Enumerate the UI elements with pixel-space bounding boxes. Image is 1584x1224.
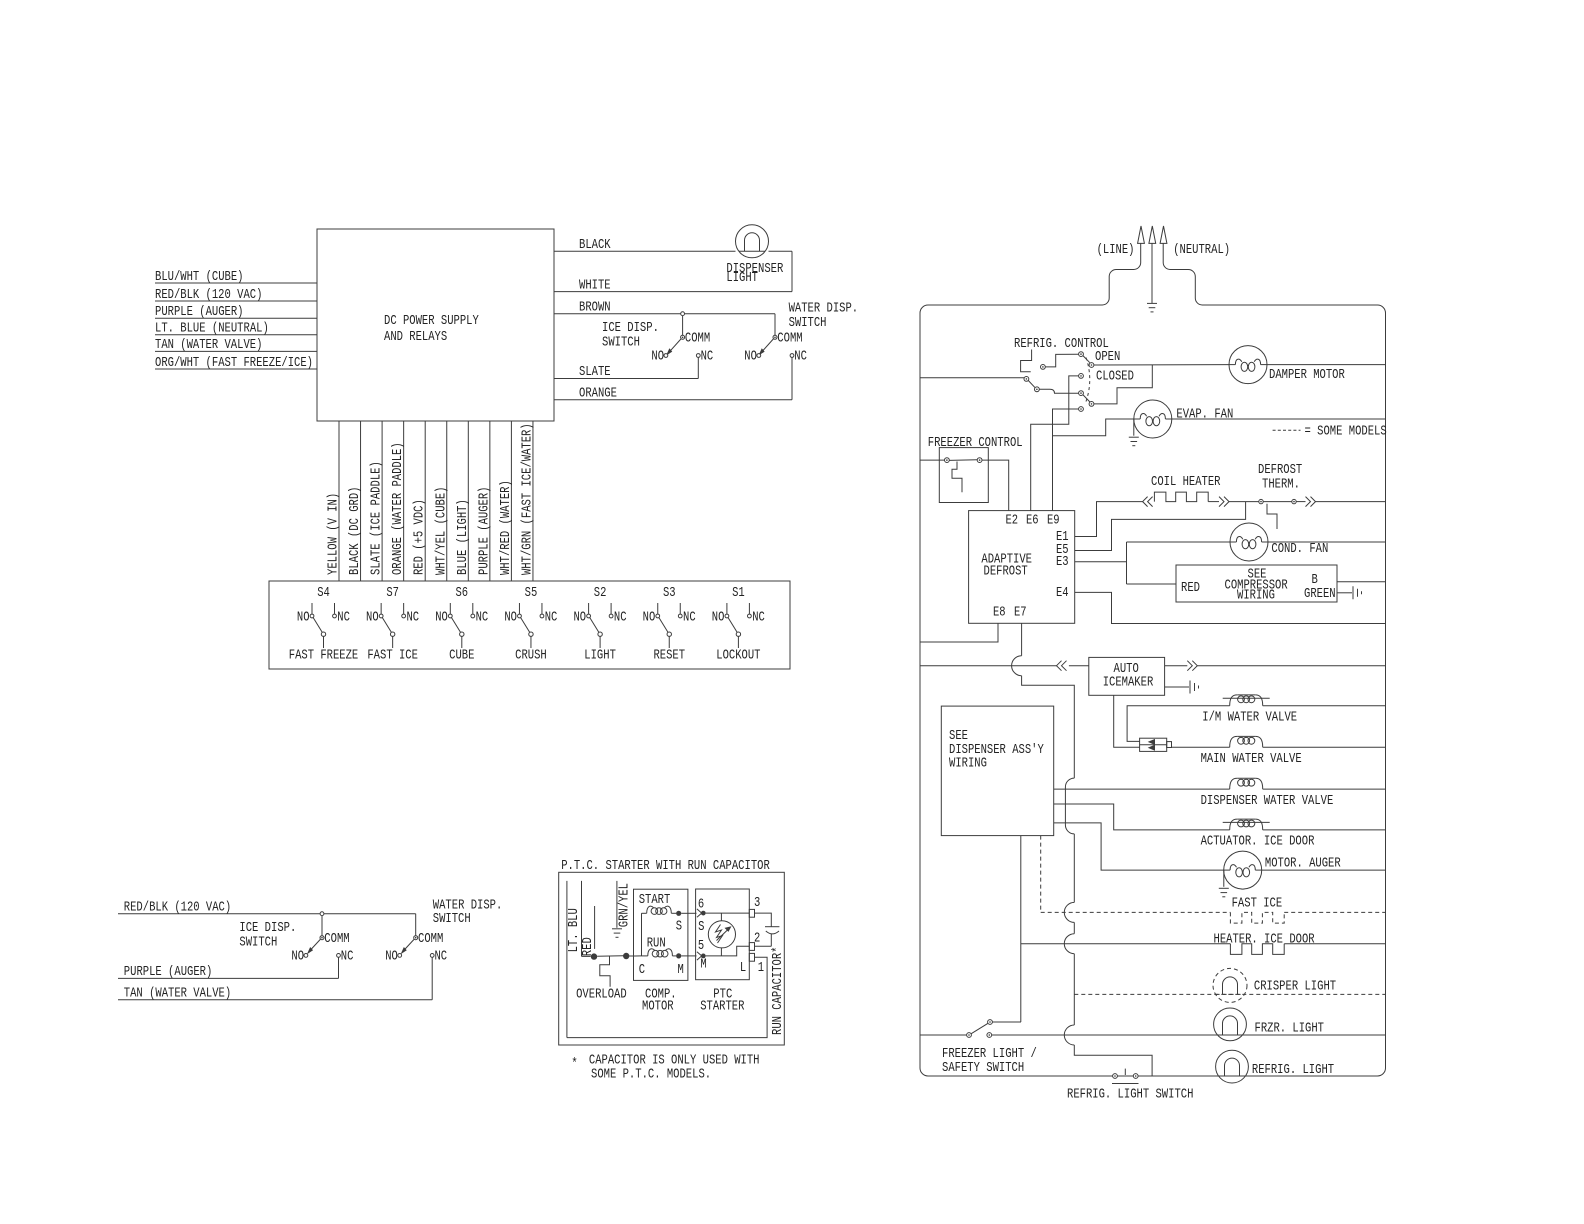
svg-text:3: 3 <box>754 895 760 911</box>
svg-text:1: 1 <box>758 960 764 976</box>
wire dispenser to actuator <box>1054 804 1230 830</box>
wire ORANGE <box>554 399 792 401</box>
svg-text:NC: NC <box>683 610 696 626</box>
svg-text:S7: S7 <box>386 585 399 601</box>
svg-text:FAST ICE: FAST ICE <box>1232 896 1283 912</box>
wire E to F <box>1039 389 1079 393</box>
node brown junction <box>681 312 685 316</box>
svg-text:COMM: COMM <box>685 331 710 347</box>
S row wire to pin 3 <box>706 912 750 914</box>
wire pin1 to bottom rail <box>567 957 767 1037</box>
svg-text:YELLOW (V IN): YELLOW (V IN) <box>326 493 342 575</box>
svg-text:AND RELAYS: AND RELAYS <box>384 329 447 345</box>
compressor wiring box <box>1176 565 1337 602</box>
svg-text:TAN (WATER VALVE): TAN (WATER VALVE) <box>124 986 231 1002</box>
svg-text:WHITE: WHITE <box>579 277 611 293</box>
wire auto icemaker line <box>920 665 1057 667</box>
wire ORANGE (WATER PADDLE) <box>403 421 405 581</box>
wire BLACK <box>554 250 736 252</box>
svg-text:CLOSED: CLOSED <box>1096 368 1134 384</box>
svg-text:COIL HEATER: COIL HEATER <box>1151 474 1221 490</box>
wire ORG/WHT (FAST FREEZE/ICE) <box>155 368 317 370</box>
svg-text:SWITCH: SWITCH <box>789 315 827 331</box>
coil heater connector left <box>1143 497 1148 507</box>
svg-text:SWITCH: SWITCH <box>239 935 277 951</box>
svg-text:WIRING: WIRING <box>1237 588 1275 604</box>
overload protector <box>582 955 591 957</box>
svg-text:START: START <box>639 892 671 908</box>
wire C contact to E6 <box>1031 376 1079 511</box>
cond fan motor M3 <box>1230 523 1268 561</box>
ground plug <box>1147 302 1157 304</box>
wire heater to defrost therm <box>1229 501 1259 503</box>
svg-text:LIGHT: LIGHT <box>584 648 616 664</box>
svg-text:HEATER. ICE DOOR: HEATER. ICE DOOR <box>1214 932 1316 948</box>
evap fan motor M2 <box>1134 400 1172 438</box>
wire to evap fan <box>1053 419 1134 436</box>
svg-text:LOCKOUT: LOCKOUT <box>716 648 760 664</box>
svg-text:M: M <box>678 962 684 978</box>
svg-text:E4: E4 <box>1056 585 1069 601</box>
winding common <box>641 913 643 956</box>
wire WHT/RED (WATER) <box>510 421 512 581</box>
svg-text:NC: NC <box>476 610 489 626</box>
wire RED/BLK (120 VAC) <box>155 300 317 302</box>
svg-text:MAIN WATER VALVE: MAIN WATER VALVE <box>1201 751 1302 767</box>
M row wire to pin 2 <box>706 946 750 956</box>
svg-text:ORG/WHT (FAST FREEZE/ICE): ORG/WHT (FAST FREEZE/ICE) <box>155 355 313 371</box>
wire BLU/WHT (CUBE) <box>155 282 317 284</box>
refrig control actuator bracket <box>1021 350 1032 372</box>
svg-text:REFRIG. LIGHT: REFRIG. LIGHT <box>1252 1062 1334 1078</box>
wire cond fan line <box>1127 541 1231 543</box>
svg-text:FRZR. LIGHT: FRZR. LIGHT <box>1255 1021 1325 1037</box>
PTC starter box <box>696 889 750 980</box>
svg-text:GRN/YEL: GRN/YEL <box>617 883 633 927</box>
svg-text:WHT/YEL (CUBE): WHT/YEL (CUBE) <box>433 487 449 576</box>
damper motor M1 <box>1229 346 1267 384</box>
svg-text:5: 5 <box>698 938 704 954</box>
actuator ice door L4 <box>1230 819 1238 830</box>
ice door heater R3 <box>1230 944 1284 955</box>
svg-text:NO: NO <box>651 349 664 365</box>
svg-text:E9: E9 <box>1047 512 1060 528</box>
coil heater R1 <box>1154 492 1208 502</box>
svg-text:TAN (WATER VALVE): TAN (WATER VALVE) <box>155 337 262 353</box>
run capacitor C1 <box>765 926 779 928</box>
svg-text:COMM: COMM <box>418 931 443 947</box>
see dispenser assy wiring box <box>941 706 1053 836</box>
svg-text:S: S <box>698 919 704 935</box>
svg-text:L: L <box>740 960 746 976</box>
svg-text:COND. FAN: COND. FAN <box>1271 541 1328 557</box>
svg-text:RED/BLK (120 VAC): RED/BLK (120 VAC) <box>155 287 262 303</box>
wire RED to compressor <box>1127 583 1177 585</box>
wire BLACK (DC GRD) <box>360 421 362 581</box>
svg-text:RED: RED <box>580 937 596 956</box>
svg-text:WHT/GRN (FAST ICE/WATER): WHT/GRN (FAST ICE/WATER) <box>519 423 535 575</box>
PTC thermistor <box>708 921 735 948</box>
ground evap fan <box>1133 419 1135 436</box>
svg-text:NC: NC <box>341 948 354 964</box>
motor S terminal <box>676 911 681 916</box>
svg-text:NC: NC <box>406 610 419 626</box>
wire PURPLE (AUGER) <box>155 317 317 319</box>
svg-text:GREEN: GREEN <box>1304 586 1336 602</box>
svg-text:NO: NO <box>643 610 656 626</box>
svg-text:*: * <box>571 1056 577 1072</box>
power plug line prong <box>928 243 1141 305</box>
svg-text:ORANGE (WATER PADDLE): ORANGE (WATER PADDLE) <box>390 442 406 575</box>
wire heater ice door feed <box>1020 836 1022 1022</box>
svg-text:NO: NO <box>504 610 517 626</box>
svg-text:DISPENSER WATER VALVE: DISPENSER WATER VALVE <box>1201 793 1334 809</box>
svg-text:P.T.C. STARTER WITH RUN CAPACI: P.T.C. STARTER WITH RUN CAPACITOR <box>561 858 770 874</box>
membrane switch panel box <box>269 581 790 669</box>
node red/blk junction <box>320 912 324 916</box>
wire WHITE <box>554 291 792 293</box>
wire damper motor line <box>1094 364 1229 366</box>
svg-text:RESET: RESET <box>653 648 685 664</box>
refrig light switch S14 <box>1113 1074 1118 1079</box>
wire icemaker to check valve <box>1114 695 1140 747</box>
svg-text:E2: E2 <box>1006 512 1019 528</box>
svg-text:REFRIG. LIGHT SWITCH: REFRIG. LIGHT SWITCH <box>1067 1087 1193 1103</box>
wire RED (+5 VDC) <box>424 421 426 581</box>
wire dispenser water valve <box>1054 788 1230 790</box>
svg-text:I/M WATER VALVE: I/M WATER VALVE <box>1202 710 1297 726</box>
wire E1 to coil heater <box>1075 502 1143 537</box>
svg-text:RED (+5 VDC): RED (+5 VDC) <box>412 499 428 575</box>
svg-text:LIGHT: LIGHT <box>726 270 758 286</box>
overload terminal stub <box>594 906 596 949</box>
svg-text:RED/BLK (120 VAC): RED/BLK (120 VAC) <box>124 900 231 916</box>
svg-text:WHT/RED (WATER): WHT/RED (WATER) <box>498 480 514 575</box>
wire PURPLE (AUGER) <box>489 421 491 581</box>
svg-text:DC POWER SUPPLY: DC POWER SUPPLY <box>384 313 479 329</box>
svg-text:NO: NO <box>366 610 379 626</box>
svg-text:NO: NO <box>744 349 757 365</box>
wire NC to slate <box>697 358 699 379</box>
svg-text:S1: S1 <box>732 585 745 601</box>
svg-text:E8: E8 <box>993 605 1006 621</box>
svg-text:S2: S2 <box>594 585 607 601</box>
svg-text:FAST ICE: FAST ICE <box>367 648 418 664</box>
compressor motor box <box>634 889 688 980</box>
wire NC to orange <box>791 358 793 400</box>
wire E7 feed <box>1021 623 1023 655</box>
svg-text:NO: NO <box>574 610 587 626</box>
svg-text:NC: NC <box>545 610 558 626</box>
main water valve L2 <box>1230 736 1238 747</box>
wire bus to refrig control <box>920 377 1024 379</box>
wire LT. BLUE (NEUTRAL) <box>155 334 317 336</box>
svg-text:SWITCH: SWITCH <box>433 911 471 927</box>
wire LT. BLU <box>566 881 568 1038</box>
svg-text:= SOME MODELS: = SOME MODELS <box>1305 423 1387 439</box>
svg-text:NC: NC <box>701 349 714 365</box>
svg-text:BLACK (DC GRD): BLACK (DC GRD) <box>347 487 363 576</box>
svg-text:WIRING: WIRING <box>949 755 987 771</box>
svg-text:BLACK: BLACK <box>579 237 611 253</box>
svg-text:EVAP. FAN: EVAP. FAN <box>1176 407 1233 423</box>
svg-text:RUN CAPACITOR*: RUN CAPACITOR* <box>770 947 786 1036</box>
svg-text:NO: NO <box>435 610 448 626</box>
svg-text:(NEUTRAL): (NEUTRAL) <box>1173 242 1230 258</box>
wire GREEN to ground <box>1337 592 1352 594</box>
svg-text:2: 2 <box>754 931 760 947</box>
svg-text:NO: NO <box>385 948 398 964</box>
ground auger <box>1223 870 1225 887</box>
svg-text:CUBE: CUBE <box>449 648 474 664</box>
coil heater connector right <box>1219 497 1224 507</box>
legend some models <box>1273 429 1301 431</box>
wire fast ice dashed <box>1040 836 1042 912</box>
svg-text:NC: NC <box>435 948 448 964</box>
svg-text:ICE DISP.: ICE DISP. <box>602 320 659 336</box>
svg-text:SOME P.T.C. MODELS.: SOME P.T.C. MODELS. <box>591 1067 711 1083</box>
wire E8 to bus <box>920 623 998 642</box>
svg-text:FAST FREEZE: FAST FREEZE <box>289 648 359 664</box>
dispenser light DS1 <box>736 225 769 258</box>
pin 2 <box>749 943 754 951</box>
svg-text:BROWN: BROWN <box>579 299 611 315</box>
pin 3 <box>749 909 754 917</box>
wire E3 <box>1075 561 1127 563</box>
wire E4 to bus <box>1075 592 1386 623</box>
svg-text:NC: NC <box>614 610 627 626</box>
refrig light DS4 <box>1216 1050 1249 1083</box>
svg-text:S4: S4 <box>317 585 330 601</box>
svg-text:RED: RED <box>1181 580 1200 596</box>
wire frzr light line <box>992 1034 1386 1036</box>
wire crisper light dashed <box>1074 993 1385 995</box>
svg-text:SAFETY SWITCH: SAFETY SWITCH <box>942 1060 1024 1076</box>
wire BROWN <box>554 313 775 315</box>
svg-text:SLATE (ICE PADDLE): SLATE (ICE PADDLE) <box>369 461 385 575</box>
wire freezer control to E2 <box>982 460 1009 511</box>
svg-text:SWITCH: SWITCH <box>602 335 640 351</box>
wire H contact to E9 <box>1053 409 1079 511</box>
wire GRN/YEL <box>616 881 618 928</box>
cabinet outline <box>920 305 1386 1076</box>
DC power supply and relays box U1 <box>317 229 554 421</box>
svg-text:BLU/WHT (CUBE): BLU/WHT (CUBE) <box>155 269 244 285</box>
I/M water valve L1 <box>1230 695 1238 706</box>
check valve <box>1140 738 1167 751</box>
svg-text:RUN: RUN <box>647 936 666 952</box>
svg-text:FREEZER CONTROL: FREEZER CONTROL <box>928 435 1023 451</box>
svg-text:OVERLOAD: OVERLOAD <box>576 987 627 1003</box>
ground icemaker <box>1165 686 1189 688</box>
svg-text:DEFROST: DEFROST <box>984 563 1028 579</box>
svg-text:E3: E3 <box>1056 554 1069 570</box>
fast ice heater R2 <box>1230 912 1284 923</box>
svg-text:M: M <box>700 956 706 972</box>
svg-text:SLATE: SLATE <box>579 364 611 380</box>
wire RED/BLK (120 VAC) <box>118 913 416 915</box>
svg-text:CRISPER LIGHT: CRISPER LIGHT <box>1254 979 1336 995</box>
svg-text:E6: E6 <box>1026 512 1039 528</box>
PTC assembly outer box <box>559 872 785 1045</box>
wire TAN (WATER VALVE) <box>118 999 432 1001</box>
svg-text:PURPLE (AUGER): PURPLE (AUGER) <box>155 304 244 320</box>
svg-text:NC: NC <box>794 349 807 365</box>
svg-text:BLUE (LIGHT): BLUE (LIGHT) <box>455 499 471 575</box>
wire SLATE (ICE PADDLE) <box>381 421 383 581</box>
start winding <box>642 912 647 914</box>
svg-text:E7: E7 <box>1014 605 1027 621</box>
svg-text:NO: NO <box>291 948 304 964</box>
wire dispenser light return <box>791 251 793 291</box>
svg-text:PURPLE (AUGER): PURPLE (AUGER) <box>124 964 213 980</box>
crisper light DS2 <box>1213 968 1247 1002</box>
svg-text:MOTOR. AUGER: MOTOR. AUGER <box>1265 856 1341 872</box>
run winding <box>629 955 641 957</box>
wire brown to water switch comm <box>774 314 776 335</box>
dispenser water valve L3 <box>1230 778 1238 789</box>
freezer control box <box>939 448 988 503</box>
motor M terminal <box>676 953 681 958</box>
svg-text:ORANGE: ORANGE <box>579 386 617 402</box>
power plug ground prong <box>1151 243 1153 303</box>
wire pin2 to capacitor <box>755 945 772 947</box>
svg-text:S5: S5 <box>525 585 538 601</box>
svg-text:OPEN: OPEN <box>1095 349 1120 365</box>
wire WHT/GRN (FAST ICE/WATER) <box>532 421 534 581</box>
ground GRN/YEL <box>612 928 622 930</box>
wire E5 to defrost therm line <box>1075 502 1246 551</box>
svg-text:PURPLE (AUGER): PURPLE (AUGER) <box>476 487 492 575</box>
ground compressor <box>1352 586 1354 599</box>
svg-text:CRUSH: CRUSH <box>515 648 547 664</box>
freezer light safety switch S13 <box>920 1034 967 1036</box>
wire B to bus <box>1337 581 1386 583</box>
svg-text:THERM.: THERM. <box>1262 477 1300 493</box>
wire TAN (WATER VALVE) <box>155 350 317 352</box>
wire RED <box>581 881 583 957</box>
wire pin3 to capacitor <box>755 913 772 927</box>
wire main water valve <box>1172 746 1230 748</box>
power plug neutral prong <box>1163 243 1377 305</box>
svg-text:NC: NC <box>752 610 765 626</box>
svg-text:S3: S3 <box>663 585 676 601</box>
wire BLUE (LIGHT) <box>467 421 469 581</box>
pin 1 <box>749 953 754 961</box>
wire PURPLE (AUGER) <box>118 977 339 979</box>
svg-text:NO: NO <box>297 610 310 626</box>
wire to ice disp switch comm <box>682 316 684 336</box>
wire bus to freezer control <box>920 459 945 461</box>
svg-text:ICEMAKER: ICEMAKER <box>1103 674 1154 690</box>
svg-text:S: S <box>676 918 682 934</box>
wire closed contact to damper line <box>1094 365 1153 404</box>
svg-text:DAMPER MOTOR: DAMPER MOTOR <box>1269 367 1345 383</box>
wire dispenser to auger motor <box>1054 823 1224 870</box>
svg-text:ICE DISP.: ICE DISP. <box>239 920 296 936</box>
adaptive defrost board U2 <box>969 511 1075 624</box>
svg-text:NO: NO <box>712 610 725 626</box>
svg-text:(LINE): (LINE) <box>1097 242 1135 258</box>
svg-text:COMM: COMM <box>777 331 802 347</box>
freezer control actuator <box>952 462 962 493</box>
wire SLATE <box>554 378 698 380</box>
refrig control coupling <box>1086 358 1090 402</box>
freezer light DS3 <box>1214 1008 1247 1041</box>
svg-text:NC: NC <box>337 610 350 626</box>
svg-text:LT. BLUE (NEUTRAL): LT. BLUE (NEUTRAL) <box>155 321 269 337</box>
wire YELLOW (V IN) <box>338 421 340 581</box>
wire to IM water valve <box>1127 706 1230 742</box>
svg-text:MOTOR: MOTOR <box>642 999 674 1015</box>
svg-text:S6: S6 <box>456 585 469 601</box>
svg-text:COMM: COMM <box>324 931 349 947</box>
svg-text:STARTER: STARTER <box>700 999 745 1015</box>
auger motor M4 <box>1224 851 1262 889</box>
svg-text:C: C <box>639 962 645 978</box>
svg-text:ACTUATOR. ICE DOOR: ACTUATOR. ICE DOOR <box>1201 834 1315 850</box>
wire WHT/YEL (CUBE) <box>446 421 448 581</box>
auto icemaker box U3 <box>1089 657 1165 695</box>
